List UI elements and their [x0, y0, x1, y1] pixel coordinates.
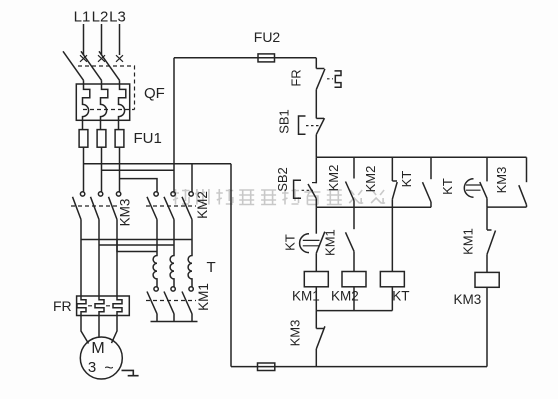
wire phase1 below FU1 [83, 147, 85, 191]
motor leads [81, 316, 89, 344]
motor M [80, 337, 122, 379]
contact KT NO [399, 157, 431, 207]
ground [122, 370, 139, 375]
transformer T [153, 240, 216, 288]
svg-text:KM2: KM2 [326, 165, 341, 192]
contactor KM3 main contacts [71, 192, 133, 296]
fuse FU2 top [254, 29, 281, 62]
svg-text:KM1: KM1 [196, 283, 211, 311]
coil KM2 [331, 272, 366, 304]
svg-text:KT: KT [399, 171, 414, 188]
breaker QF [63, 51, 165, 129]
wire phase3 below FU1 [119, 147, 121, 191]
wire bottom return [231, 366, 487, 368]
coil KM1 [292, 272, 328, 304]
fuse FU1 [79, 130, 162, 148]
coil KT [380, 272, 409, 304]
svg-text:FR: FR [289, 69, 304, 86]
svg-text:KM1: KM1 [322, 229, 337, 256]
fuse FU2 bottom [258, 363, 275, 371]
svg-text:L3: L3 [109, 9, 126, 26]
svg-text:L2: L2 [92, 9, 109, 26]
thermal relay FR heaters [53, 296, 129, 316]
wire control top [174, 57, 316, 59]
wire coil bottoms join [316, 287, 392, 311]
svg-text:SB1: SB1 [277, 109, 292, 134]
svg-text:FR: FR [53, 298, 72, 314]
svg-text:M: M [91, 340, 104, 357]
contact FR NC [289, 69, 342, 90]
svg-text:KM3: KM3 [494, 167, 509, 194]
coil KM3 [454, 272, 500, 307]
svg-text:QF: QF [144, 85, 165, 102]
wire L3 lead [119, 24, 121, 55]
wire left return vertical [230, 164, 232, 367]
wire down to FR contact [315, 58, 317, 69]
wire control feed vertical [173, 58, 175, 192]
contact KM2 NO selfhold [326, 157, 354, 207]
contact KM3 NO selfhold [494, 157, 527, 207]
wire KM3 coil down [486, 287, 488, 366]
svg-text:KT: KT [392, 289, 409, 304]
svg-text:SB2: SB2 [275, 167, 290, 192]
contact KM2 NC [363, 157, 397, 271]
wire phase2 below FU1 [101, 147, 103, 191]
wire B control tap [102, 169, 175, 171]
wire to KM2 pole3 [191, 164, 193, 192]
wire tap1 to transformer [81, 239, 192, 241]
svg-text:KT: KT [440, 178, 455, 195]
contact KT delayed left [282, 207, 325, 271]
wire FR to SB1 [315, 90, 317, 119]
contact KM3 NC series [287, 311, 325, 367]
wire SB1 to bus A [315, 135, 317, 158]
contactor KM2 main contacts [146, 191, 210, 251]
contact KM1 NO [322, 207, 354, 271]
svg-text:KM2: KM2 [363, 166, 378, 193]
button SB2 NO [275, 157, 316, 198]
contact KT delayed right [440, 157, 487, 207]
wire L1 lead [83, 24, 85, 55]
svg-text:~: ~ [104, 360, 113, 377]
svg-text:T: T [207, 259, 216, 276]
svg-text:KM3: KM3 [454, 292, 482, 307]
svg-text:KM2: KM2 [195, 191, 210, 219]
svg-text:KM3: KM3 [118, 199, 133, 227]
contactor KM1 star contacts [146, 283, 211, 321]
node L2 [92, 9, 109, 26]
svg-text:KM3: KM3 [287, 320, 302, 347]
wire bus B [316, 206, 431, 208]
svg-text:FU1: FU1 [134, 130, 162, 147]
wire bus A [316, 156, 526, 158]
wire L2 lead [101, 24, 103, 55]
wire join right [487, 206, 527, 208]
watermark [173, 189, 386, 205]
svg-text:FU2: FU2 [254, 29, 281, 45]
svg-text:L1: L1 [74, 9, 91, 26]
button SB1 NC [277, 109, 325, 134]
wire tap2 to transformer [99, 244, 174, 246]
wire A control tap [84, 163, 232, 165]
wire branch to KM2 pole1 [120, 179, 158, 192]
svg-text:KM1: KM1 [461, 228, 476, 255]
node L1 [74, 9, 91, 26]
contact KM1 NC interlock [461, 207, 496, 272]
wire SB2 to bus B [315, 199, 317, 208]
svg-text:KT: KT [282, 234, 297, 251]
svg-text:3: 3 [88, 359, 96, 376]
wire tap3 to transformer [117, 240, 157, 252]
node L3 [109, 9, 126, 26]
